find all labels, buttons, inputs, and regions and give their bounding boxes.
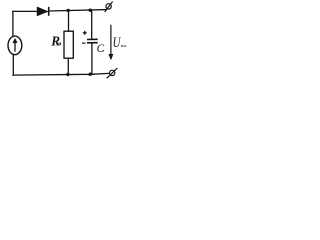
wire resistor bottom lead [67,58,69,74]
terminal bottom-right [107,68,118,78]
wire top-left horizontal segment [13,10,38,12]
svg-text:вых: вых [121,44,127,48]
junction dot bottom-right (capacitor/bottom wire) [89,73,92,76]
junction dot top-left (resistor/top wire) [67,9,70,12]
capacitor polarity minus [82,42,85,44]
terminal top-right [105,2,113,13]
wire left vertical (top) [12,11,14,36]
wire resistor top lead [68,10,70,31]
capacitor polarity plus [83,31,87,35]
wire capacitor bottom lead [91,43,93,74]
svg-text:н: н [102,49,104,53]
wire left vertical (bottom) [12,55,14,75]
junction dot top-right (capacitor/top wire) [89,9,92,12]
diode VD [37,7,49,16]
voltage arrow Uвых (down) [109,25,113,60]
wire top-right horizontal segment [49,10,106,11]
wire capacitor top lead [91,10,93,39]
capacitor C1 plates [87,39,98,43]
current source I [8,36,22,55]
resistor R1 body [64,31,73,58]
svg-text:U: U [113,35,121,51]
junction dot bottom-left (resistor/bottom wire) [66,73,69,76]
svg-text:н: н [58,41,62,47]
wire bottom horizontal [13,73,108,75]
